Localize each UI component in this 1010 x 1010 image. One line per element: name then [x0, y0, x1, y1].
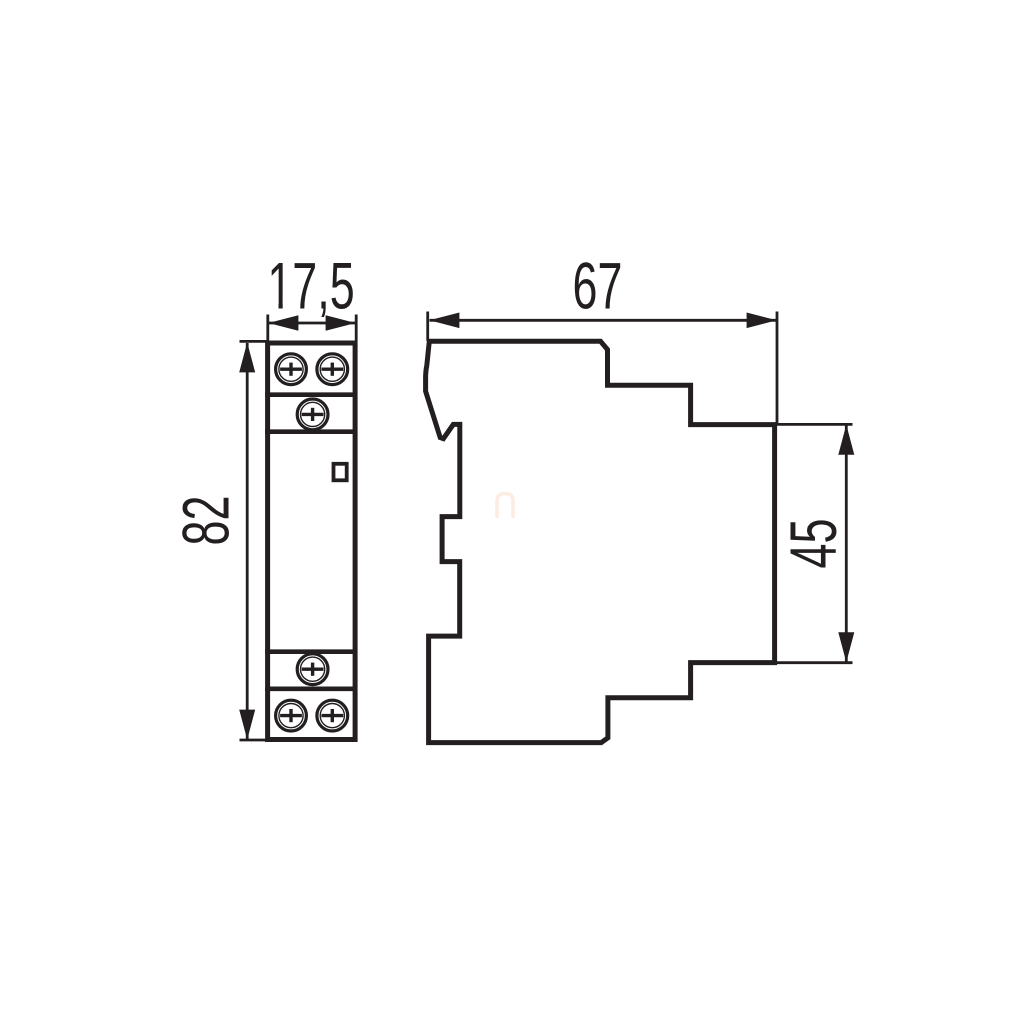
- dimension 82 bottom extension line: [240, 739, 268, 742]
- dimension 45 line: [845, 425, 848, 662]
- indicator square: [334, 464, 347, 481]
- dimension 45 top arrowhead: [838, 425, 854, 455]
- screw terminal top-left: [276, 354, 307, 385]
- svg-text:17,5: 17,5: [267, 249, 354, 323]
- dimension 17,5 right extension tick: [355, 315, 358, 342]
- dimension 17,5 right arrowhead: [326, 315, 356, 331]
- dimension 82 top arrowhead: [239, 342, 255, 372]
- front view divider line 2: [265, 429, 355, 434]
- svg-text:45: 45: [776, 519, 850, 569]
- screw terminal bottom-left: [276, 700, 307, 731]
- dimension 67 left arrowhead: [429, 313, 459, 329]
- dimension 67 right arrowhead: [747, 313, 777, 329]
- dimension 67 left extension line: [426, 312, 429, 342]
- dimension 17,5 left arrowhead: [268, 315, 298, 331]
- front view divider line 3: [265, 649, 355, 654]
- screw terminal bottom-right: [317, 700, 348, 731]
- side view profile: [426, 341, 775, 742]
- screw terminal upper-middle: [297, 399, 328, 430]
- front view divider line 1: [265, 392, 355, 397]
- dimension 82 bottom arrowhead: [239, 710, 255, 740]
- screw terminal lower-middle: [297, 654, 328, 685]
- dimension 82 top extension line: [240, 340, 268, 343]
- front view divider line 4: [265, 686, 355, 691]
- dimension 82 line: [246, 343, 249, 739]
- screw terminal top-right: [317, 354, 348, 385]
- dimension 45 bottom extension line: [776, 661, 853, 664]
- dimension 17,5 line: [269, 322, 355, 325]
- dimension 67 line: [430, 319, 777, 322]
- svg-text:82: 82: [169, 496, 243, 546]
- front view body outline: [268, 343, 356, 740]
- watermark n: [497, 494, 513, 519]
- dimension 45 top extension line: [776, 423, 853, 426]
- dimension 67 right extension line: [776, 312, 779, 425]
- dimension 17,5 left extension tick: [266, 315, 269, 342]
- svg-text:67: 67: [573, 249, 623, 323]
- dimension 45 bottom arrowhead: [838, 632, 854, 662]
- serif masks for digit 1: [270, 302, 279, 310]
